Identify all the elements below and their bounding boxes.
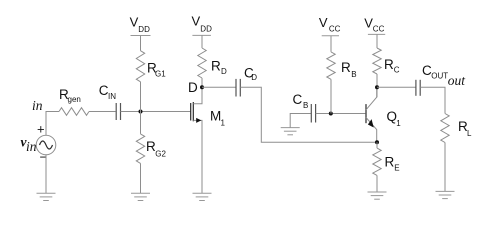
wire CB ground corner <box>290 114 311 128</box>
svg-text:out: out <box>448 73 467 88</box>
svg-text:D: D <box>188 80 198 95</box>
wire VCC1 to RB <box>330 36 332 52</box>
capacitor CD <box>236 79 240 97</box>
wire source to ground <box>45 155 47 193</box>
svg-text:R: R <box>384 57 394 72</box>
node emitter dot <box>375 140 379 144</box>
resistor RD <box>198 48 206 78</box>
node base junction <box>329 112 333 116</box>
node gate junction <box>139 110 143 114</box>
resistor RB <box>327 52 335 79</box>
ground RL <box>436 191 455 198</box>
wire node D to CD <box>202 86 236 88</box>
wire COUT to RL <box>420 87 445 113</box>
wire RC to collector node <box>376 74 378 97</box>
svg-text:G1: G1 <box>155 70 166 79</box>
wire CD down to emitter node <box>240 87 377 142</box>
wire RG2 to ground <box>140 163 142 193</box>
svg-text:in: in <box>32 98 43 113</box>
wire RB to base node <box>330 79 332 113</box>
svg-text:D: D <box>251 73 257 82</box>
supply VDD1 bar <box>131 35 151 37</box>
svg-text:gen: gen <box>68 95 81 104</box>
ground RG2 <box>131 193 150 200</box>
svg-text:R: R <box>385 155 395 170</box>
svg-text:+: + <box>37 122 45 137</box>
wire emitter node to RE <box>376 142 378 148</box>
transistor M1 drain lead <box>193 87 202 104</box>
svg-text:R: R <box>341 60 351 75</box>
wire RD to node D <box>201 78 203 104</box>
capacitor COUT <box>416 80 420 96</box>
wire VCC2 to RC <box>376 34 378 48</box>
wire RL to ground <box>444 143 446 192</box>
transistor Q1 emitter lead <box>366 118 377 143</box>
svg-text:OUT: OUT <box>431 71 448 80</box>
ground M1 source <box>193 193 212 200</box>
transistor M1 source lead <box>193 120 202 193</box>
transistor Q1 collector lead <box>366 87 377 110</box>
capacitor CIN <box>116 103 120 120</box>
wire CIN to gate <box>121 111 191 113</box>
svg-text:V: V <box>192 13 201 28</box>
ground RE <box>368 192 387 199</box>
wire Rgen to CIN <box>89 111 116 113</box>
wire input corner <box>46 112 59 136</box>
resistor RG2 <box>136 134 144 164</box>
capacitor CB <box>311 104 315 123</box>
svg-text:B: B <box>351 70 356 79</box>
supply VDD2 bar <box>192 34 211 36</box>
wire VDD1 to RG1 <box>140 36 142 51</box>
svg-text:1: 1 <box>221 119 226 128</box>
wire gate node to RG2 <box>140 112 142 134</box>
svg-text:IN: IN <box>108 92 116 101</box>
wire RG1 to gate node <box>140 82 142 112</box>
transistor M1 source arrow <box>196 118 201 123</box>
wire collector node to COUT <box>377 86 416 88</box>
wire RE to ground <box>376 175 378 192</box>
svg-text:D: D <box>221 67 227 76</box>
svg-text:C: C <box>394 66 400 75</box>
resistor RL <box>441 114 449 143</box>
svg-text:E: E <box>394 164 399 173</box>
svg-text:CC: CC <box>373 24 385 33</box>
svg-text:1: 1 <box>396 119 401 128</box>
svg-text:DD: DD <box>138 25 150 34</box>
svg-text:L: L <box>467 129 472 138</box>
svg-text:G2: G2 <box>155 150 166 159</box>
svg-text:C: C <box>293 92 303 107</box>
supply VCC1 bar <box>322 35 339 37</box>
resistor RE <box>373 148 381 175</box>
ground source <box>37 193 56 200</box>
voltage source vin <box>36 135 56 155</box>
svg-text:B: B <box>303 101 308 110</box>
transistor M1 gate bar <box>190 103 192 121</box>
transistor Q1 emitter arrow <box>368 119 375 128</box>
transistor Q1 base bar <box>365 104 367 123</box>
svg-text:in: in <box>26 139 37 154</box>
svg-text:CC: CC <box>329 24 341 33</box>
resistor Rgen <box>59 108 89 116</box>
ground CB <box>281 128 300 135</box>
wire VDD2 to RD <box>201 35 203 48</box>
svg-text:DD: DD <box>200 25 212 34</box>
node collector dot <box>375 85 379 89</box>
wire CB to base <box>316 113 366 115</box>
node D dot <box>200 85 204 89</box>
svg-text:V: V <box>130 15 139 30</box>
voltage source sine <box>40 141 53 149</box>
supply VCC2 bar <box>368 33 385 35</box>
transistor M1 channel bar <box>192 102 194 121</box>
resistor RC <box>373 48 381 74</box>
svg-text:V: V <box>319 15 328 30</box>
svg-text:R: R <box>211 59 221 74</box>
resistor RG1 <box>136 51 144 82</box>
